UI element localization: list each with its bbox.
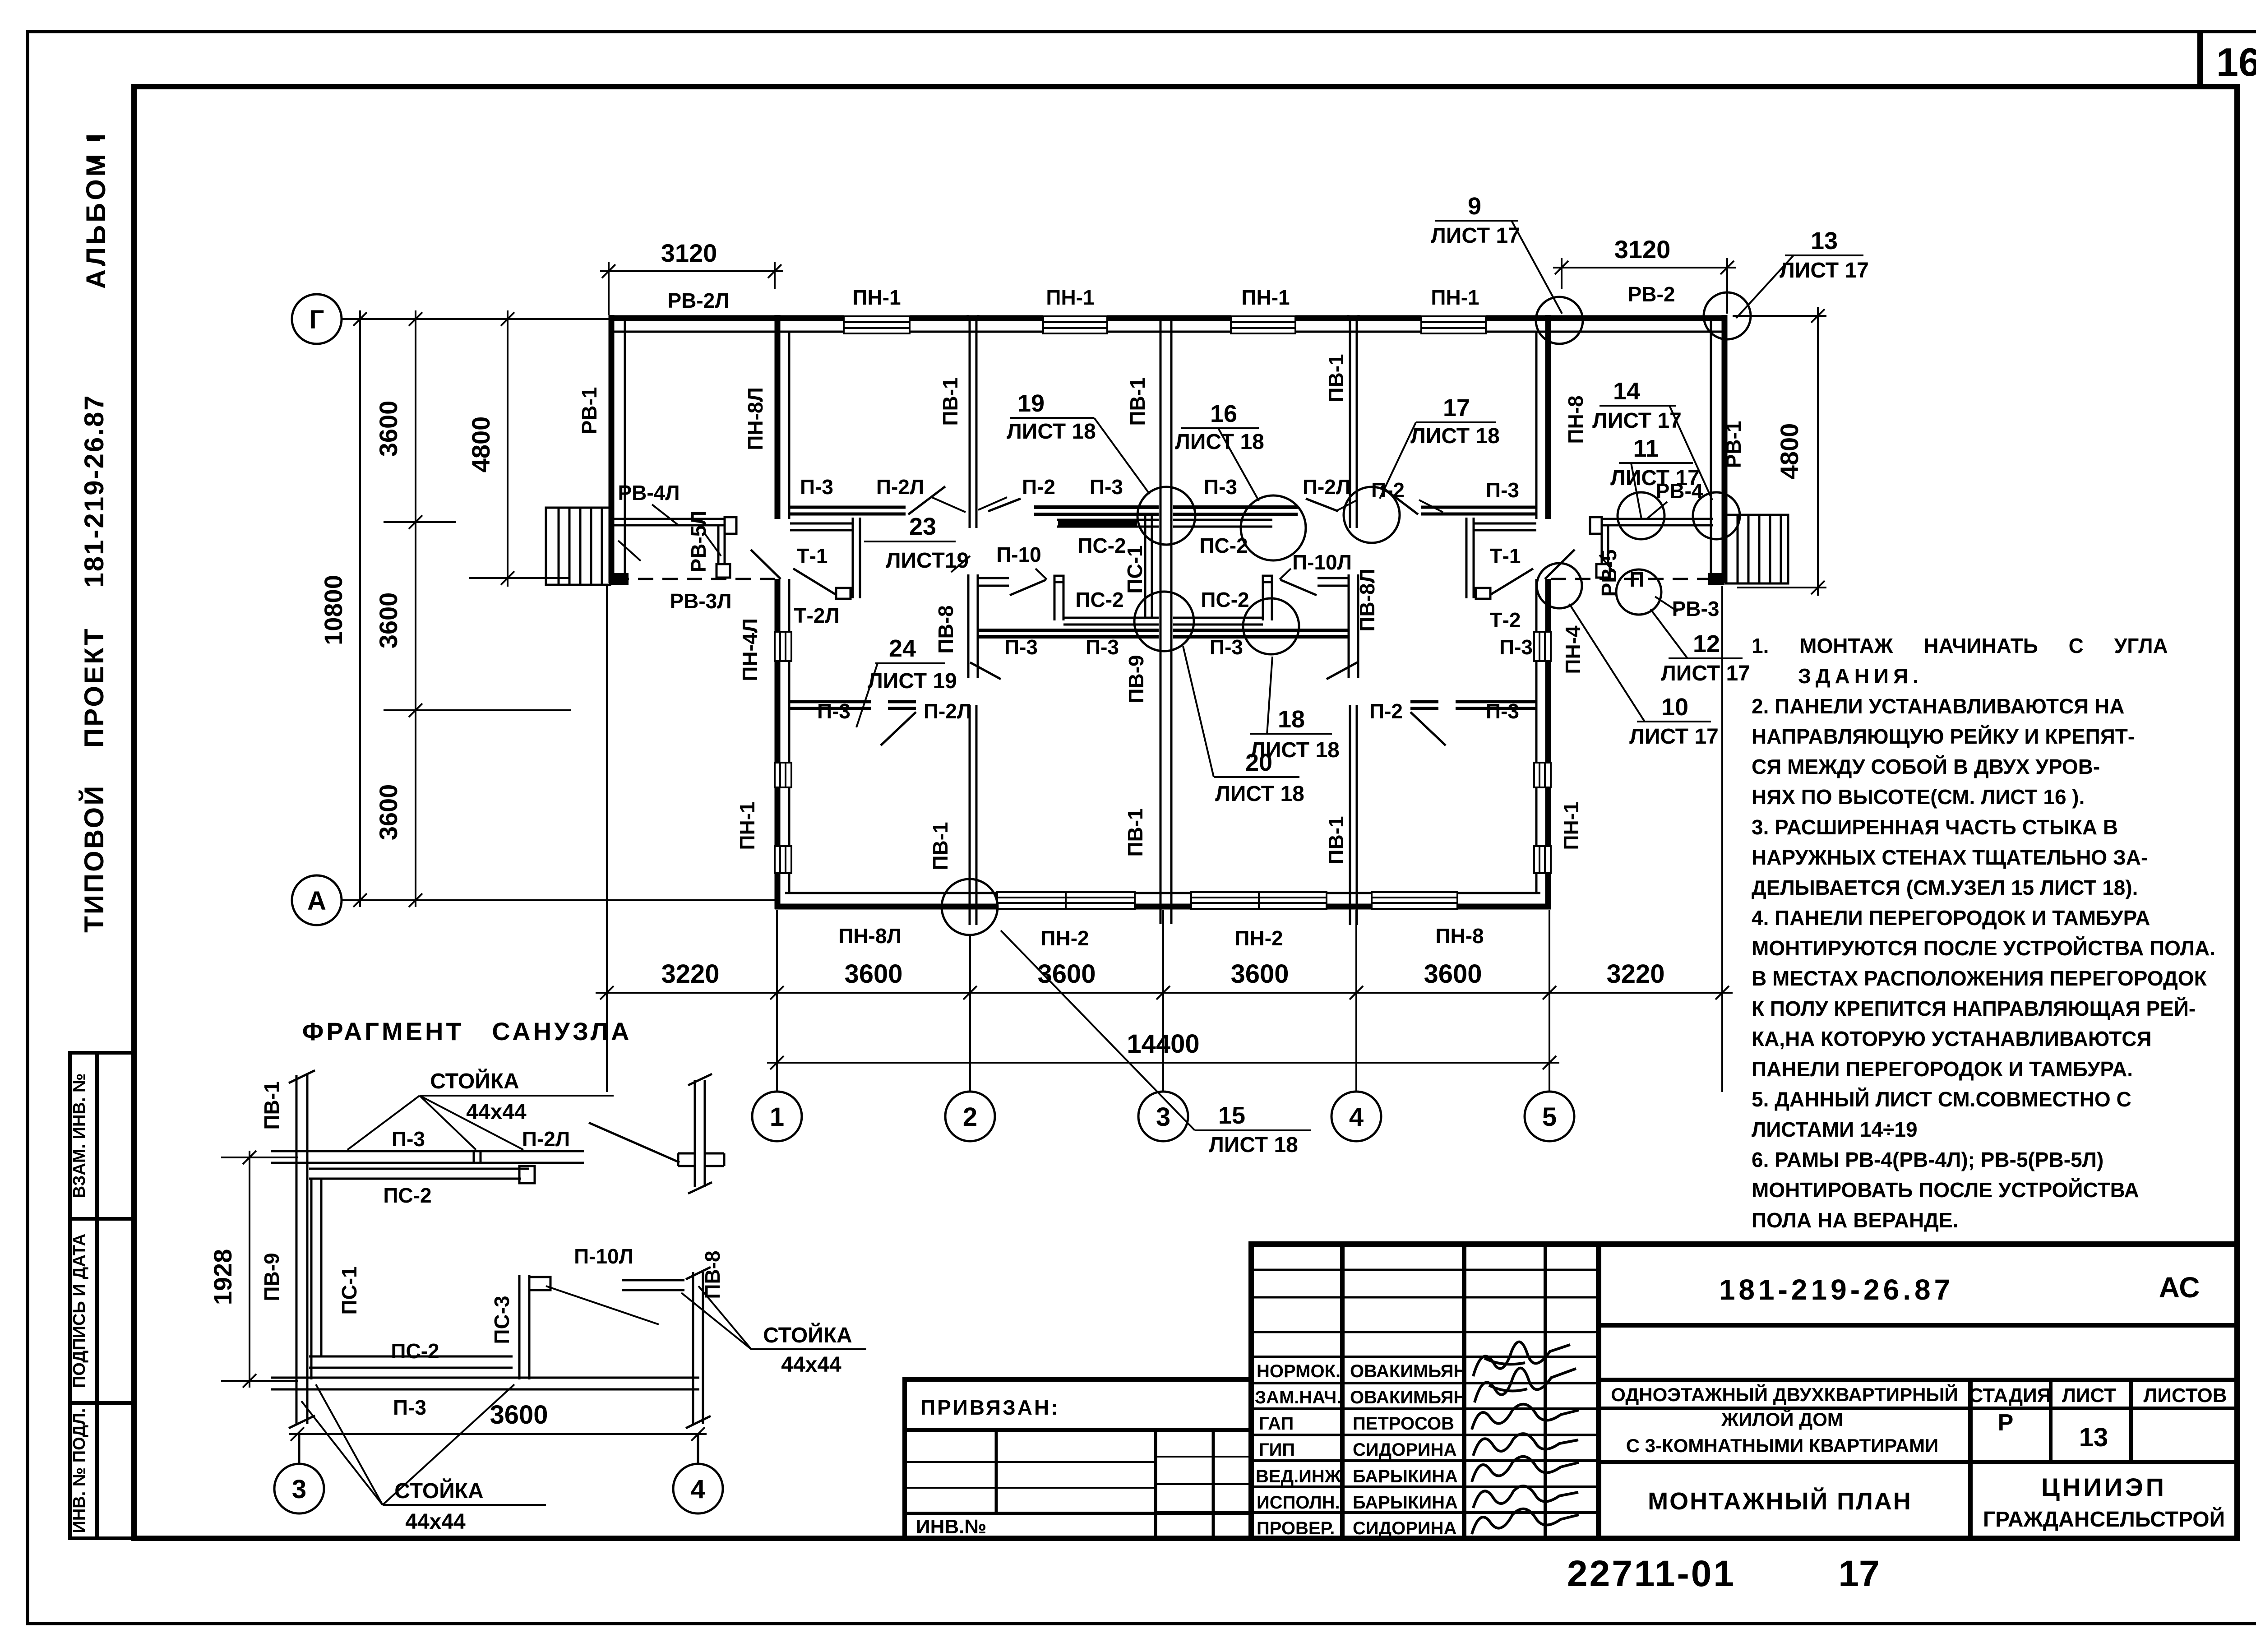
left veranda wall РВ-1 [609, 315, 615, 583]
svg-text:СТАДИЯ: СТАДИЯ [1969, 1384, 2052, 1407]
sanitary: ПВ-8 wall [968, 514, 1358, 678]
title block right rows [1599, 1323, 2237, 1328]
svg-text:П-3: П-3 [1086, 635, 1119, 659]
svg-text:СТОЙКА: СТОЙКА [763, 1323, 852, 1347]
svg-text:Т-2: Т-2 [1490, 608, 1521, 632]
node label 20 [1183, 646, 1304, 806]
axis3 party wall double [1160, 321, 1162, 924]
svg-text:3220: 3220 [661, 959, 719, 989]
bottom wall inner thin [785, 892, 1540, 894]
svg-text:13: 13 [2079, 1423, 2108, 1452]
entrance door axis1 [751, 550, 781, 579]
door leaf ПВ-8 bottom left [970, 662, 1001, 679]
fragment ПС-2 upper band [309, 1166, 535, 1183]
svg-text:Г: Г [310, 305, 324, 334]
title block left part verticals [1340, 1244, 1345, 1538]
fragment dim 3600 [289, 1427, 707, 1441]
door leaf Т-2 [1490, 569, 1533, 595]
bottom dim row 2 (14400) [767, 1056, 1559, 1069]
node label 9 [1431, 193, 1562, 314]
title block left part thin rows [1251, 1269, 1599, 1271]
fragment СТОЙКА bottom [301, 1384, 546, 1534]
axis5 wall inner thin [1535, 333, 1538, 893]
svg-text:14: 14 [1613, 378, 1640, 405]
svg-text:ПН-1: ПН-1 [1431, 286, 1479, 309]
svg-text:ФРАГМЕНТ САНУЗЛА: ФРАГМЕНТ САНУЗЛА [302, 1017, 632, 1046]
svg-text:ПС-2: ПС-2 [383, 1184, 431, 1207]
svg-text:П-3: П-3 [1486, 478, 1519, 502]
svg-text:ПН-4: ПН-4 [1561, 625, 1585, 674]
upper ПС-2 bands [1057, 519, 1159, 521]
interior wall ПВ-1 right top [1349, 321, 1351, 528]
node label 19 [1007, 390, 1150, 494]
svg-text:ПВ-1: ПВ-1 [938, 377, 962, 426]
svg-text:3600: 3600 [844, 959, 902, 989]
svg-text:П-2Л: П-2Л [522, 1127, 570, 1151]
upper partition row right [1421, 506, 1536, 509]
svg-text:ЗАМ.НАЧ.: ЗАМ.НАЧ. [1255, 1388, 1341, 1407]
top wall inner thin line [614, 331, 1723, 333]
svg-text:П-10Л: П-10Л [574, 1245, 633, 1268]
signatures squiggles [1472, 1342, 1579, 1534]
node label 12 [1650, 609, 1750, 685]
svg-text:2. ПАНЕЛИ УСТАНАВЛИВАЮТСЯ НА: 2. ПАНЕЛИ УСТАНАВЛИВАЮТСЯ НА [1752, 694, 2124, 718]
svg-text:А: А [307, 886, 326, 916]
fragment axis circles [274, 1434, 723, 1513]
node label 11 [1610, 435, 1700, 519]
svg-text:44х44: 44х44 [466, 1100, 527, 1124]
door leaf П-10 [1010, 580, 1046, 595]
svg-text:ПС-2: ПС-2 [1075, 588, 1123, 611]
svg-text:ПВ-8Л: ПВ-8Л [1355, 569, 1379, 631]
svg-text:БАРЫКИНА: БАРЫКИНА [1353, 1493, 1458, 1513]
svg-text:ПС-2: ПС-2 [1199, 534, 1248, 557]
svg-text:НАРУЖНЫХ СТЕНАХ ТЩАТЕЛЬНО ЗА-: НАРУЖНЫХ СТЕНАХ ТЩАТЕЛЬНО ЗА- [1752, 846, 2148, 869]
svg-text:П-3: П-3 [392, 1127, 425, 1151]
svg-text:СЯ МЕЖДУ СОБОЙ В ДВУХ УРОВ-: СЯ МЕЖДУ СОБОЙ В ДВУХ УРОВ- [1752, 755, 2100, 778]
svg-text:ВЕД.ИНЖ: ВЕД.ИНЖ [1256, 1467, 1341, 1486]
axis А circle [292, 875, 342, 925]
svg-text:ОВАКИМЬЯН: ОВАКИМЬЯН [1350, 1361, 1466, 1381]
dim 4800 right side [1733, 307, 1826, 596]
fragment ПС-2 lower band [309, 1356, 513, 1358]
fragment СТОЙКА top [347, 1069, 614, 1150]
svg-text:19: 19 [1017, 390, 1045, 417]
fragment П-10Л piece [529, 1277, 684, 1290]
fragment П-3 lower beam [271, 1377, 699, 1379]
svg-text:ЛИСТ 18: ЛИСТ 18 [1007, 420, 1096, 444]
ПВ-8Л wall [1348, 574, 1350, 678]
tambour Т-1 right walls [1466, 518, 1536, 599]
svg-text:ПН-1: ПН-1 [852, 286, 901, 309]
entrance door axis5 [1545, 550, 1575, 579]
title block outer [1251, 1244, 2237, 1538]
svg-text:ПС-3: ПС-3 [490, 1296, 513, 1344]
svg-text:ПН-4Л: ПН-4Л [738, 618, 762, 681]
svg-text:ПОЛА НА ВЕРАНДЕ.: ПОЛА НА ВЕРАНДЕ. [1752, 1208, 1958, 1232]
svg-text:ЛИСТ 17: ЛИСТ 17 [1780, 259, 1869, 282]
svg-text:3120: 3120 [661, 239, 717, 267]
axis1 wall ПН-8Л/ПН-4Л/ПН-1 thick [775, 315, 781, 909]
ПС-1 vertical [1151, 514, 1153, 618]
svg-text:17: 17 [1838, 1553, 1879, 1594]
svg-text:НАПРАВЛЯЮЩУЮ РЕЙКУ И КРЕПЯТ-: НАПРАВЛЯЮЩУЮ РЕЙКУ И КРЕПЯТ- [1752, 725, 2135, 748]
svg-text:3600: 3600 [374, 592, 402, 649]
tambour Т-1 left walls [790, 518, 860, 599]
svg-text:П-3: П-3 [1210, 635, 1243, 659]
svg-text:С 3-КОМНАТНЫМИ КВАРТИРАМИ: С 3-КОМНАТНЫМИ КВАРТИРАМИ [1626, 1435, 1939, 1456]
svg-text:НЯХ ПО ВЫСОТЕ(СМ. ЛИСТ 16 ).: НЯХ ПО ВЫСОТЕ(СМ. ЛИСТ 16 ). [1752, 785, 2085, 809]
svg-text:ПН-1: ПН-1 [1046, 286, 1094, 309]
fragment ПС-3 vertical [518, 1275, 521, 1379]
svg-text:4800: 4800 [1775, 423, 1803, 480]
top wall windows (glazed panels) [844, 316, 1486, 333]
svg-text:18: 18 [1278, 706, 1305, 733]
svg-text:ИСПОЛН.: ИСПОЛН. [1257, 1493, 1340, 1513]
svg-text:П-2Л: П-2Л [1303, 475, 1350, 499]
svg-text:ПВ-9: ПВ-9 [1124, 655, 1148, 703]
svg-text:20: 20 [1245, 749, 1272, 776]
svg-text:4. ПАНЕЛИ ПЕРЕГОРОДОК И ТАМБУР: 4. ПАНЕЛИ ПЕРЕГОРОДОК И ТАМБУРА [1752, 906, 2150, 930]
svg-text:МОНТИРУЮТСЯ ПОСЛЕ УСТРОЙСТВА П: МОНТИРУЮТСЯ ПОСЛЕ УСТРОЙСТВА ПОЛА. [1752, 936, 2215, 960]
svg-text:16: 16 [1210, 400, 1237, 427]
svg-text:П-2: П-2 [1369, 699, 1403, 723]
svg-text:П-3: П-3 [1204, 475, 1237, 499]
svg-text:ПВ-8: ПВ-8 [934, 605, 957, 653]
svg-text:ЖИЛОЙ ДОМ: ЖИЛОЙ ДОМ [1721, 1408, 1843, 1430]
door leaf П-2Л right [1381, 486, 1418, 514]
axis2 / axis4 joint stubs on top wall [967, 315, 969, 321]
svg-text:3600: 3600 [1424, 959, 1482, 989]
svg-text:ЛИСТ 17: ЛИСТ 17 [1629, 725, 1719, 749]
svg-text:БАРЫКИНА: БАРЫКИНА [1353, 1467, 1458, 1486]
svg-text:3600: 3600 [1037, 959, 1096, 989]
door leaf lower П-2 right [1410, 712, 1446, 745]
bottom axis circles 1-5 [752, 1092, 1574, 1141]
svg-text:КА,НА КОТОРУЮ УСТАНАВЛИВАЮТСЯ: КА,НА КОТОРУЮ УСТАНАВЛИВАЮТСЯ [1752, 1027, 2152, 1050]
svg-text:К ПОЛУ КРЕПИТСЯ НАПРАВЛЯЮЩАЯ Р: К ПОЛУ КРЕПИТСЯ НАПРАВЛЯЮЩАЯ РЕЙ- [1752, 997, 2196, 1020]
svg-text:5: 5 [1542, 1102, 1557, 1132]
lower П-3 row central [978, 629, 1159, 632]
svg-text:22711-01: 22711-01 [1567, 1553, 1736, 1594]
svg-text:СИДОРИНА: СИДОРИНА [1353, 1440, 1456, 1460]
axis5 wall windows [1534, 632, 1551, 873]
axis5 wall ПН-8/ПН-4/ПН-1 thick [1545, 315, 1551, 909]
svg-text:3: 3 [1156, 1102, 1170, 1132]
svg-text:5. ДАННЫЙ ЛИСТ СМ.СОВМЕСТНО С: 5. ДАННЫЙ ЛИСТ СМ.СОВМЕСТНО С [1752, 1087, 2131, 1111]
svg-text:14400: 14400 [1127, 1029, 1199, 1059]
personnel rows labels [1255, 1361, 1466, 1538]
page number box divider [2197, 32, 2203, 88]
central upper beam П-3 row [1034, 505, 1159, 509]
svg-text:ГИП: ГИП [1259, 1440, 1295, 1460]
node label 13 [1736, 227, 1869, 318]
svg-text:ПН-8: ПН-8 [1564, 395, 1587, 444]
svg-text:ИНВ.№: ИНВ.№ [916, 1516, 986, 1538]
svg-text:ПРОВЕР.: ПРОВЕР. [1257, 1518, 1335, 1538]
svg-text:3600: 3600 [374, 401, 402, 457]
interior wall ПВ-1 left bottom [969, 705, 971, 925]
svg-text:ЛИСТ 17: ЛИСТ 17 [1661, 662, 1750, 685]
svg-text:3220: 3220 [1606, 959, 1664, 989]
svg-text:3120: 3120 [1614, 235, 1671, 264]
node label 16 [1175, 400, 1264, 501]
left dim column 3600x3 [384, 310, 571, 907]
П-2 label leader right [1306, 499, 1338, 511]
door leaf Т-2Л [793, 569, 836, 595]
svg-text:АЛЬБОМ I: АЛЬБОМ I [81, 131, 111, 289]
svg-text:181-219-26.87: 181-219-26.87 [79, 394, 109, 588]
svg-text:РВ-4Л: РВ-4Л [618, 481, 680, 504]
svg-text:ПС-2: ПС-2 [1077, 534, 1126, 557]
door leaf ПВ-8Л area [1327, 662, 1357, 679]
svg-text:ПН-8Л: ПН-8Л [838, 924, 901, 948]
door leaf lower П-2Л left [881, 712, 916, 745]
svg-text:9: 9 [1468, 193, 1481, 220]
svg-text:ВЗАМ. ИНВ. №: ВЗАМ. ИНВ. № [70, 1074, 89, 1199]
svg-text:П-2: П-2 [1022, 475, 1055, 499]
svg-text:Т-1: Т-1 [797, 544, 828, 568]
left stamp boxes [70, 1053, 134, 1538]
fragment СТОЙКА right [546, 1286, 866, 1377]
svg-text:ПС-1: ПС-1 [337, 1266, 361, 1314]
svg-text:П-3: П-3 [800, 475, 833, 499]
svg-text:П-2: П-2 [1371, 478, 1405, 502]
svg-text:ПВ-1: ПВ-1 [1324, 354, 1348, 402]
node label 23 [864, 513, 969, 573]
svg-text:ЛИСТ19: ЛИСТ19 [886, 549, 969, 573]
svg-text:П-10: П-10 [996, 543, 1041, 566]
svg-text:ПН-8: ПН-8 [1435, 924, 1484, 948]
svg-text:10: 10 [1661, 694, 1688, 721]
П-10Л partition piece right [1318, 577, 1349, 579]
svg-text:ЛИСТ 18: ЛИСТ 18 [1209, 1133, 1298, 1157]
svg-text:РВ-3: РВ-3 [1672, 597, 1720, 620]
svg-text:ЛИСТОВ: ЛИСТОВ [2144, 1384, 2227, 1407]
svg-text:П-3: П-3 [393, 1396, 426, 1419]
node label 24 [856, 635, 957, 727]
left dim column 4800 [469, 310, 569, 587]
svg-text:ЛИСТ 18: ЛИСТ 18 [1215, 782, 1304, 806]
svg-text:3600: 3600 [490, 1400, 548, 1430]
ПРИВЯЗАН table [905, 1379, 1251, 1538]
stairs right [1726, 515, 1788, 583]
node label 17 [1380, 394, 1500, 499]
svg-text:ПЕТРОСОВ: ПЕТРОСОВ [1353, 1414, 1454, 1434]
svg-text:П: П [1629, 568, 1644, 591]
svg-text:П-3: П-3 [817, 699, 851, 723]
svg-text:ЗДАНИЯ.: ЗДАНИЯ. [1798, 664, 1923, 688]
svg-text:ПРИВЯЗАН:: ПРИВЯЗАН: [920, 1396, 1060, 1419]
door leaf П-2Л left [908, 486, 945, 514]
fragment П-3 top beam [271, 1151, 584, 1163]
svg-text:НОРМОК.: НОРМОК. [1257, 1361, 1341, 1381]
svg-text:17: 17 [1443, 394, 1470, 421]
svg-text:В МЕСТАХ РАСПОЛОЖЕНИЯ ПЕРЕГОРО: В МЕСТАХ РАСПОЛОЖЕНИЯ ПЕРЕГОРОДОК [1752, 967, 2207, 990]
node label 10 [1569, 604, 1719, 749]
door leaf П-10Л [1281, 580, 1317, 595]
П-10 partition piece [978, 577, 1009, 579]
svg-text:10800: 10800 [319, 575, 347, 645]
svg-text:ГРАЖДАНСЕЛЬСТРОЙ: ГРАЖДАНСЕЛЬСТРОЙ [1983, 1507, 2225, 1532]
svg-text:ЛИСТ 17: ЛИСТ 17 [1592, 409, 1682, 433]
svg-text:ПВ-9: ПВ-9 [260, 1253, 283, 1301]
veranda РВ-4Л wall left [614, 517, 736, 578]
interior wall ПВ-1 left top [968, 315, 1359, 925]
svg-text:ЛИСТ 18: ЛИСТ 18 [1410, 424, 1500, 448]
svg-text:2: 2 [963, 1102, 977, 1132]
svg-text:ЛИСТАМИ 14÷19: ЛИСТАМИ 14÷19 [1752, 1118, 1918, 1141]
svg-text:Р: Р [1998, 1410, 2014, 1436]
svg-text:РВ-1: РВ-1 [1722, 421, 1745, 468]
fragment wall ПВ-1/ПВ-9 column [289, 1070, 315, 1428]
plan labels horizontal [618, 282, 1719, 950]
svg-text:ИНВ. № ПОДЛ.: ИНВ. № ПОДЛ. [70, 1408, 89, 1533]
veranda РВ-4 wall right [1590, 517, 1713, 578]
svg-text:МОНТИРОВАТЬ ПОСЛЕ УСТРОЙСТВА: МОНТИРОВАТЬ ПОСЛЕ УСТРОЙСТВА [1752, 1178, 2139, 1202]
svg-text:16: 16 [2216, 40, 2256, 84]
svg-text:ПН-1: ПН-1 [1241, 286, 1290, 309]
svg-text:181-219-26.87: 181-219-26.87 [1719, 1273, 1954, 1306]
svg-text:ПН-2: ПН-2 [1234, 926, 1283, 950]
lower ПС-2 bands [1063, 617, 1159, 619]
svg-text:ПОДПИСЬ И ДАТА: ПОДПИСЬ И ДАТА [70, 1234, 89, 1388]
node label 14 [1592, 378, 1712, 500]
fragment ПВ-8 wall [686, 1267, 711, 1428]
svg-text:12: 12 [1693, 630, 1720, 657]
svg-text:11: 11 [1633, 435, 1659, 462]
svg-text:ПН-1: ПН-1 [735, 801, 759, 850]
label leader lines [618, 497, 1678, 611]
svg-text:РВ-3Л: РВ-3Л [670, 589, 731, 613]
fragment ПС-1 vertical [310, 1179, 313, 1379]
axis1 wall windows [775, 632, 791, 873]
svg-text:ЛИСТ: ЛИСТ [2062, 1384, 2116, 1407]
svg-text:ГАП: ГАП [1259, 1414, 1294, 1434]
svg-text:ПС-2: ПС-2 [1201, 588, 1249, 611]
lower partition row right [1456, 700, 1536, 703]
fragment lone element near axis1 circle [589, 1074, 724, 1194]
svg-text:П-3: П-3 [1090, 475, 1123, 499]
veranda dashed lines РВ-3Л / РВ-3 [614, 578, 775, 580]
svg-text:РВ-2Л: РВ-2Л [667, 289, 729, 312]
svg-text:ЛИСТ 18: ЛИСТ 18 [1175, 430, 1264, 454]
svg-text:ПВ-1: ПВ-1 [260, 1081, 283, 1129]
svg-text:4800: 4800 [467, 416, 495, 473]
svg-text:ПАНЕЛИ ПЕРЕГОРОДОК И ТАМБУРА.: ПАНЕЛИ ПЕРЕГОРОДОК И ТАМБУРА. [1752, 1057, 2133, 1081]
svg-text:1: 1 [770, 1102, 784, 1132]
svg-text:ПС-1: ПС-1 [1123, 545, 1146, 593]
svg-text:ПВ-1: ПВ-1 [1126, 377, 1149, 426]
svg-text:24: 24 [889, 635, 916, 662]
svg-text:ТИПОВОЙ ПРОЕКТ: ТИПОВОЙ ПРОЕКТ [79, 627, 109, 933]
svg-text:П-3: П-3 [1486, 699, 1519, 723]
svg-text:15: 15 [1218, 1102, 1245, 1129]
upper partition row П-3/П-2Л left [789, 507, 1536, 514]
СТАДИЯ ЛИСТ ЛИСТОВ verticals [1968, 1380, 1973, 1538]
svg-text:СТОЙКА: СТОЙКА [430, 1069, 519, 1093]
svg-text:ПВ-1: ПВ-1 [1123, 808, 1147, 856]
svg-text:ПН-2: ПН-2 [1040, 926, 1089, 950]
svg-text:П-3: П-3 [1499, 635, 1533, 659]
svg-text:ПС-2: ПС-2 [391, 1339, 439, 1363]
bottom wall windows [997, 892, 1457, 909]
svg-text:44х44: 44х44 [405, 1510, 466, 1534]
svg-text:ПВ-1: ПВ-1 [929, 822, 952, 870]
svg-text:3: 3 [292, 1475, 306, 1504]
plan labels vertical (rotated) [578, 354, 1745, 870]
axis Г circle [292, 294, 342, 344]
svg-text:ЛИСТ 17: ЛИСТ 17 [1431, 224, 1520, 248]
top wall outer thick line segments (РВ-2л, ПН-1 x4, РВ-2) [609, 315, 1727, 321]
svg-text:СИДОРИНА: СИДОРИНА [1353, 1518, 1456, 1538]
svg-text:МОНТАЖНЫЙ ПЛАН: МОНТАЖНЫЙ ПЛАН [1648, 1487, 1912, 1515]
node label 18 [1250, 657, 1340, 762]
svg-text:44х44: 44х44 [781, 1353, 841, 1377]
svg-text:РВ-4: РВ-4 [1656, 479, 1703, 503]
svg-text:Т-2Л: Т-2Л [794, 604, 839, 627]
bottom dim row 1 [596, 986, 1733, 1000]
svg-text:ЦНИИЭП: ЦНИИЭП [2041, 1473, 2167, 1501]
svg-text:ПН-1: ПН-1 [1559, 801, 1583, 850]
svg-text:ОВАКИМЬЯН: ОВАКИМЬЯН [1350, 1388, 1466, 1407]
svg-text:1928: 1928 [208, 1249, 237, 1305]
fragment dim 1928 [221, 1151, 298, 1388]
svg-text:П-10Л: П-10Л [1292, 551, 1352, 574]
svg-text:3600: 3600 [374, 784, 402, 841]
svg-text:РВ-5Л: РВ-5Л [687, 510, 710, 572]
svg-text:П-2Л: П-2Л [876, 475, 924, 499]
svg-text:П-2Л: П-2Л [924, 699, 971, 723]
interior wall ПВ-1 right bottom [1349, 705, 1351, 925]
svg-text:4: 4 [691, 1475, 705, 1504]
svg-text:3600: 3600 [1230, 959, 1289, 989]
lower partition row П-3/П-2Л left [789, 702, 1536, 708]
svg-text:23: 23 [909, 513, 936, 540]
svg-text:6. РАМЫ РВ-4(РВ-4Л); РВ-5(РВ-5: 6. РАМЫ РВ-4(РВ-4Л); РВ-5(РВ-5Л) [1752, 1148, 2103, 1171]
bottom wall outer thick [775, 904, 1551, 910]
svg-text:ПН-8Л: ПН-8Л [744, 387, 767, 450]
dim 3120 top-right [1553, 258, 1736, 314]
svg-text:ЛИСТ 19: ЛИСТ 19 [868, 669, 957, 693]
svg-text:ОДНОЭТАЖНЫЙ ДВУХКВАРТИРНЫЙ: ОДНОЭТАЖНЫЙ ДВУХКВАРТИРНЫЙ [1611, 1384, 1958, 1405]
svg-text:13: 13 [1811, 227, 1838, 255]
svg-text:1. МОНТАЖ НАЧИНАТЬ С УГЛА: 1. МОНТАЖ НАЧИНАТЬ С УГЛА [1752, 634, 2168, 657]
svg-text:ДЕЛЫВАЕТСЯ (СМ.УЗЕЛ 15 ЛИСТ 18: ДЕЛЫВАЕТСЯ (СМ.УЗЕЛ 15 ЛИСТ 18). [1752, 876, 2138, 899]
node circles [942, 292, 1751, 935]
axis1 wall inner thin [788, 333, 791, 893]
svg-text:П-3: П-3 [1004, 635, 1038, 659]
svg-text:РВ-2: РВ-2 [1628, 282, 1675, 306]
stairs left [546, 508, 610, 585]
svg-text:ПВ-1: ПВ-1 [1324, 816, 1348, 864]
node label 15 [1001, 930, 1311, 1157]
bottom extension lines [607, 586, 1722, 1092]
svg-text:4: 4 [1349, 1102, 1364, 1132]
fragment labels [383, 1127, 633, 1419]
left dim column 10800 [353, 310, 367, 907]
right veranda wall РВ-1 [1722, 315, 1728, 583]
dim 3120 top-left [600, 262, 783, 315]
upper ПС-2 filled bars [1058, 520, 1137, 526]
svg-text:Т-1: Т-1 [1490, 544, 1521, 568]
svg-text:3. РАСШИРЕННАЯ ЧАСТЬ СТЫКА В: 3. РАСШИРЕННАЯ ЧАСТЬ СТЫКА В [1752, 815, 2118, 839]
П-2 label leader left [988, 499, 1021, 511]
svg-text:АС: АС [2159, 1271, 2200, 1304]
svg-text:РВ-1: РВ-1 [578, 387, 601, 435]
